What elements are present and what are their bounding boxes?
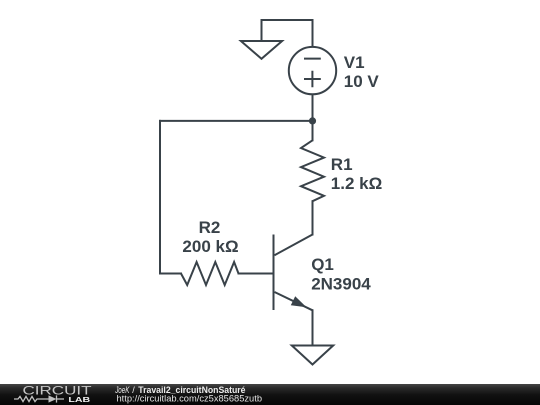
svg-text:Q1: Q1 [311,255,334,274]
svg-text:1.2 kΩ: 1.2 kΩ [331,174,382,193]
ground bottom (emitter) [292,346,333,365]
node: V1-/R1/R2 junction [309,117,316,124]
wire: left branch to R2 left lead [160,273,181,275]
resistor R2 [181,262,239,285]
wire: top ground to V1 top terminal [262,20,313,47]
wire: node down to R1 top [312,121,314,140]
footer bar [0,384,540,405]
transistor Q1 (NPN) [274,235,313,311]
svg-text:LAB: LAB [68,397,90,404]
CircuitLab logo resistor-diode squiggle [14,395,64,402]
svg-text:V1: V1 [344,53,365,72]
svg-text:2N3904: 2N3904 [311,275,371,294]
voltage source V1 [289,47,336,94]
svg-text:R1: R1 [331,155,353,174]
wire: Q1 emitter to bottom ground [312,310,314,345]
resistor R1 [301,140,324,201]
svg-text:CIRCUIT: CIRCUIT [23,384,93,398]
wire: left branch vertical [159,121,161,274]
wire: node to left branch (horizontal) [160,120,313,122]
svg-text:http://circuitlab.com/cz5x8568: http://circuitlab.com/cz5x85685zutb [117,393,263,403]
wire: R2 right lead to Q1 base [239,273,274,275]
svg-text:10 V: 10 V [344,72,380,91]
svg-text:200 kΩ: 200 kΩ [182,237,238,256]
svg-text:R2: R2 [199,218,221,237]
wire: V1 bottom terminal to node [312,95,314,121]
wire: R1 bottom to Q1 collector [312,201,314,234]
ground top (V1 negative reference) [241,41,282,59]
